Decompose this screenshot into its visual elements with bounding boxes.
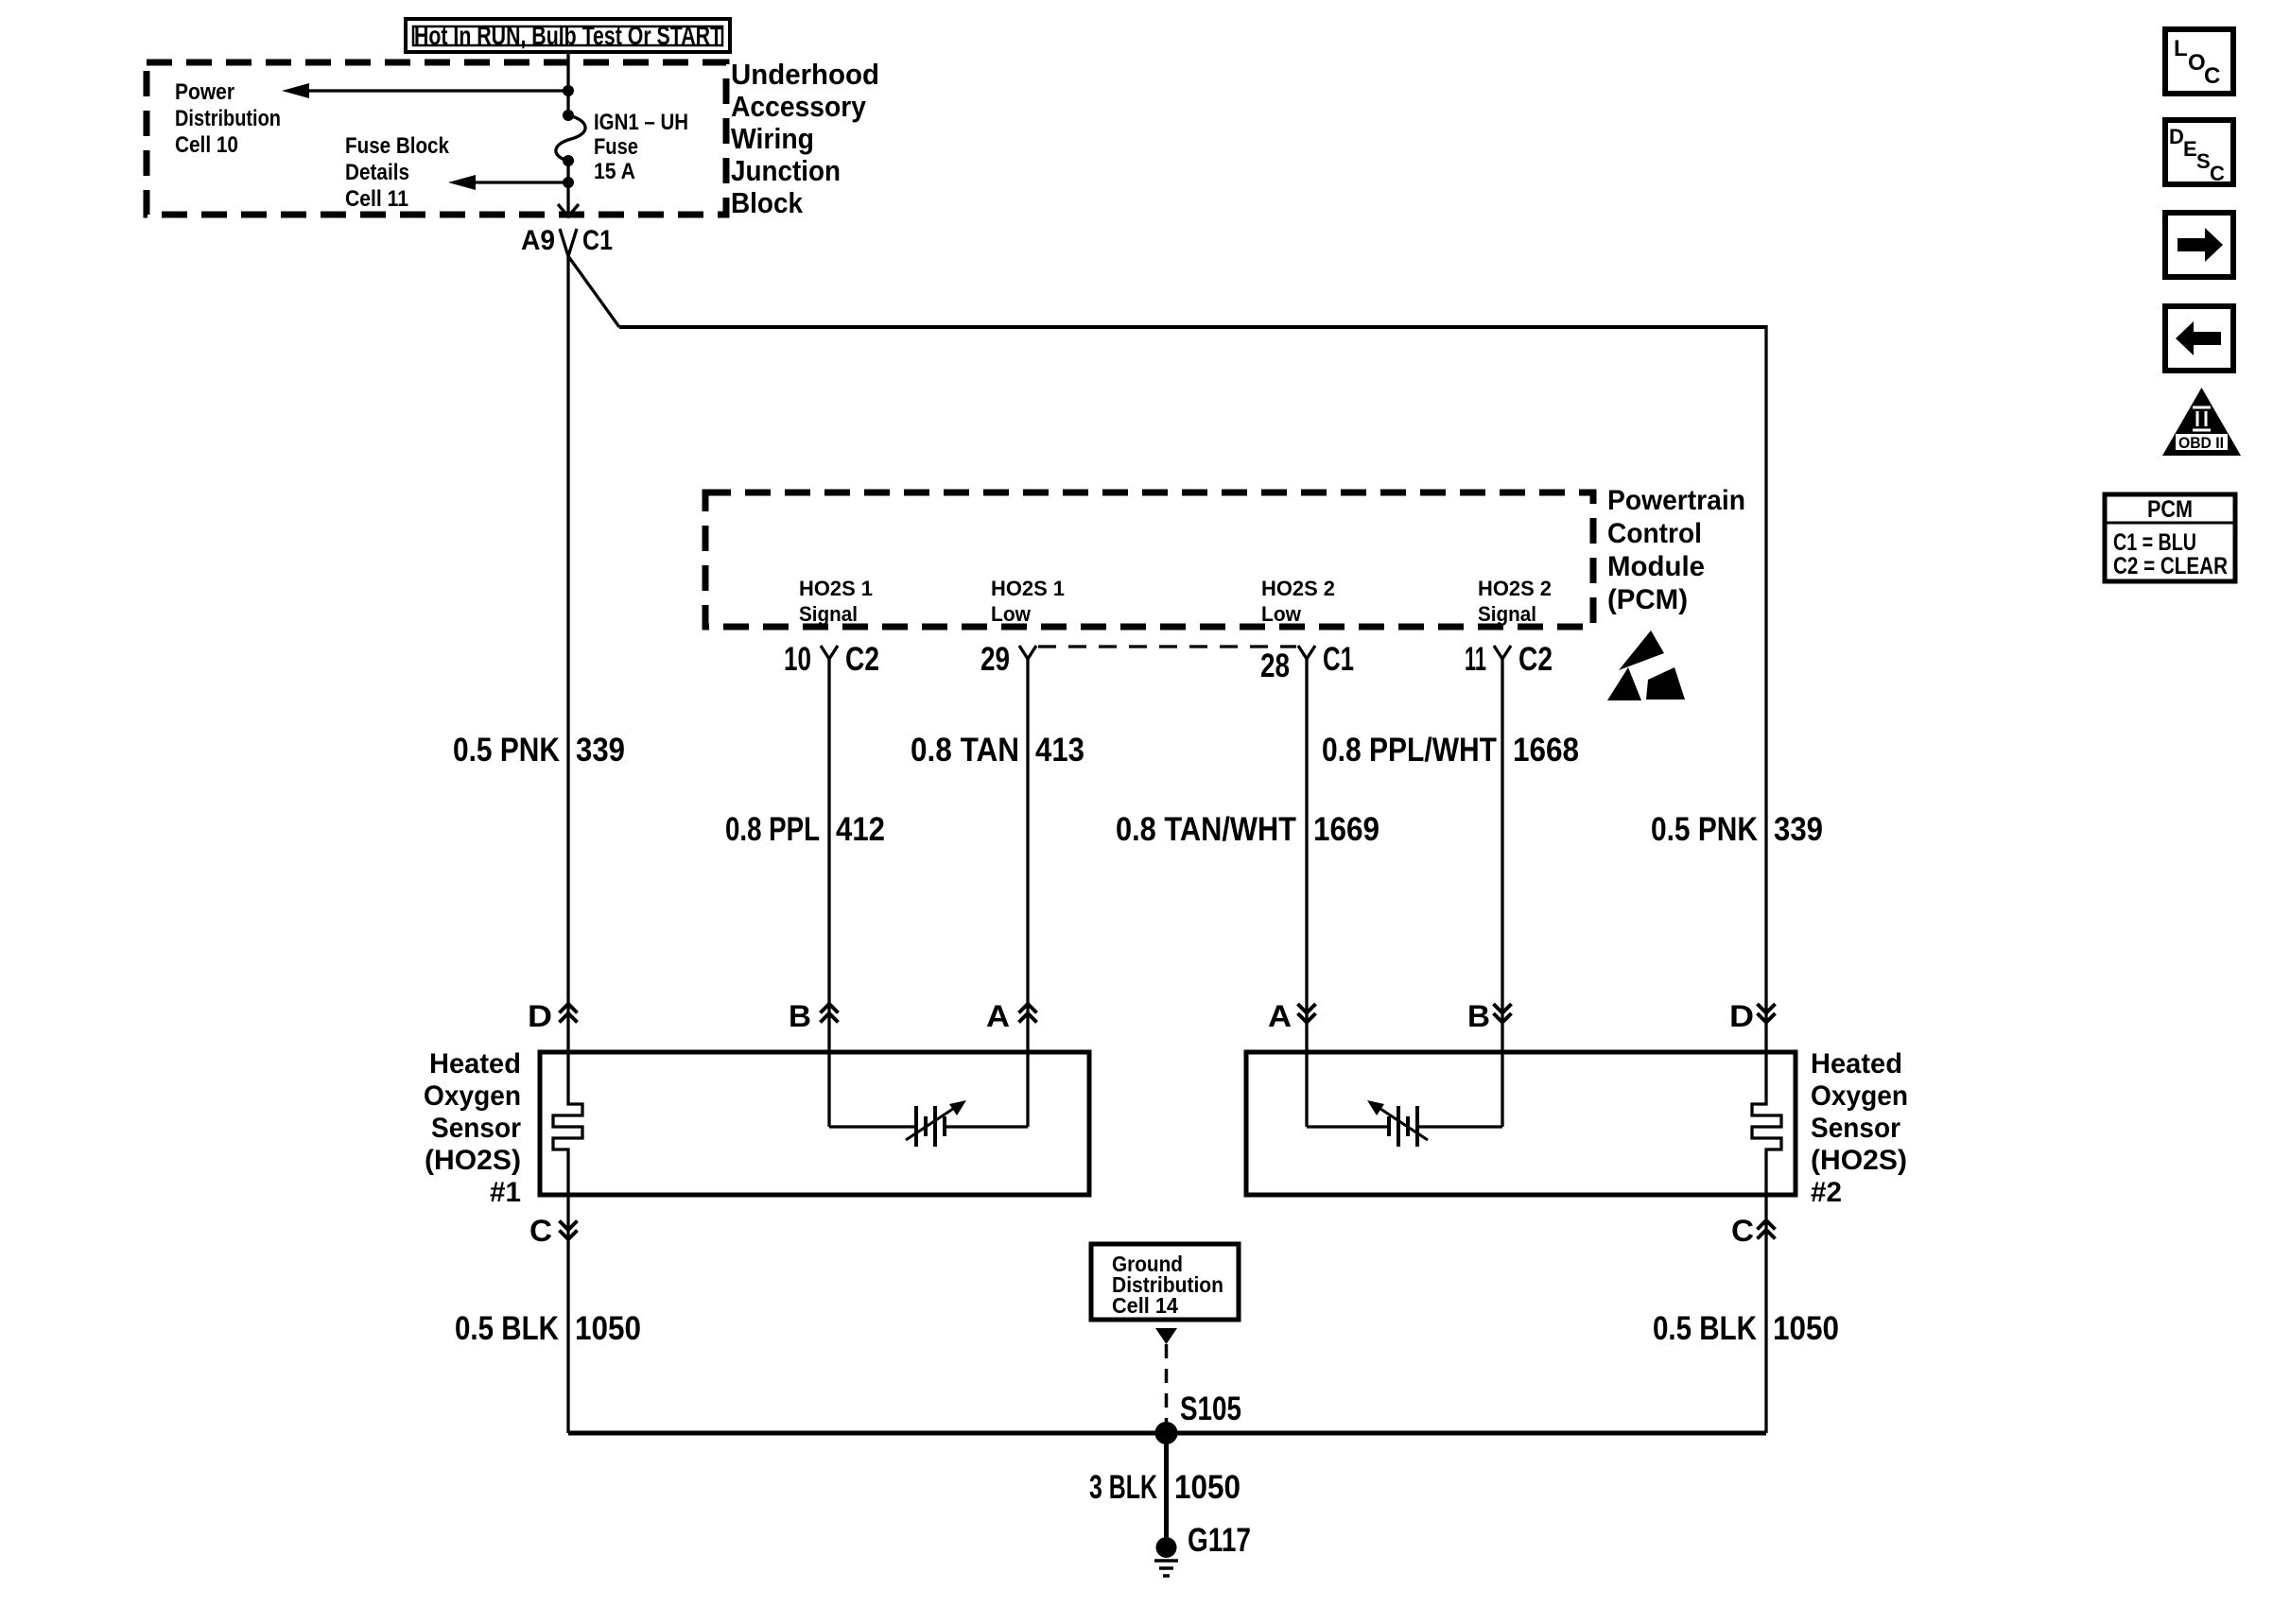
svg-text:Module: Module bbox=[1607, 551, 1705, 582]
svg-text:O: O bbox=[2188, 50, 2206, 76]
svg-text:1050: 1050 bbox=[1773, 1310, 1839, 1347]
wire below fuse bbox=[566, 161, 569, 216]
pin 11 C2 fork bbox=[1465, 641, 1553, 678]
svg-text:Accessory: Accessory bbox=[731, 90, 867, 123]
svg-text:A: A bbox=[1268, 999, 1292, 1033]
svg-text:(HO2S): (HO2S) bbox=[1811, 1145, 1907, 1176]
svg-text:Heated: Heated bbox=[429, 1048, 521, 1080]
wire 3 BLK 1050 to ground bbox=[1164, 1433, 1169, 1547]
svg-text:OBD II: OBD II bbox=[2178, 434, 2224, 452]
svg-text:1668: 1668 bbox=[1513, 732, 1579, 769]
svg-text:B: B bbox=[789, 999, 811, 1033]
dashed wire to S105 bbox=[1165, 1344, 1169, 1433]
pin label HO2S 1 Signal bbox=[799, 577, 873, 626]
powertrain control module (dashed box) bbox=[705, 492, 1593, 627]
dashed connector line between pin 29 and pin 28 bbox=[1038, 645, 1296, 648]
svg-text:Sensor: Sensor bbox=[431, 1113, 521, 1144]
pin 28 C1 fork bbox=[1260, 641, 1354, 684]
heater element HO2S1 bbox=[553, 1052, 582, 1195]
svg-text:Powertrain: Powertrain bbox=[1607, 485, 1745, 516]
icon DESC bbox=[2165, 120, 2233, 185]
svg-text:E: E bbox=[2183, 137, 2197, 161]
svg-text:Signal: Signal bbox=[799, 602, 858, 626]
pin 29 fork bbox=[980, 641, 1036, 678]
label 3 BLK 1050 bbox=[1089, 1469, 1241, 1506]
svg-text:3 BLK: 3 BLK bbox=[1089, 1469, 1157, 1506]
svg-text:0.8 TAN/WHT: 0.8 TAN/WHT bbox=[1116, 811, 1296, 848]
svg-text:0.5 PNK: 0.5 PNK bbox=[1651, 811, 1758, 848]
svg-text:Junction: Junction bbox=[731, 154, 841, 187]
svg-text:Oxygen: Oxygen bbox=[424, 1080, 521, 1112]
svg-text:A9: A9 bbox=[521, 225, 555, 256]
sensing element wires HO2S1 bbox=[829, 1052, 1028, 1127]
connector arrows A B D into HO2S2 (chevrons down) bbox=[1298, 1004, 1776, 1023]
svg-text:A: A bbox=[986, 999, 1010, 1033]
junction dot at fuse block details tap bbox=[563, 177, 574, 188]
svg-text:C1: C1 bbox=[1323, 641, 1354, 678]
svg-text:C: C bbox=[529, 1214, 552, 1248]
svg-text:Power: Power bbox=[175, 79, 234, 105]
junction dot at power distribution tap bbox=[563, 85, 574, 96]
label 0.5 BLK 1050 (right) bbox=[1653, 1310, 1839, 1347]
wire TAN 413 (pin 29 to HO2S1 A) bbox=[1026, 659, 1029, 1052]
svg-text:10: 10 bbox=[784, 641, 811, 678]
connector arrow C into HO2S2 (chevrons up) bbox=[1758, 1220, 1776, 1239]
pcm connector legend box bbox=[2105, 494, 2235, 581]
pin 10 C2 fork bbox=[784, 641, 879, 678]
svg-text:C2: C2 bbox=[845, 641, 879, 678]
wire BLK 1050 from HO2S2 C bbox=[1764, 1195, 1767, 1433]
wire: feed into junction block bbox=[566, 52, 569, 115]
svg-text:S: S bbox=[2196, 149, 2211, 173]
label 0.5 PNK 339 (right) bbox=[1651, 811, 1823, 848]
svg-text:G117: G117 bbox=[1188, 1522, 1251, 1559]
label 0.8 TAN/WHT 1669 bbox=[1116, 811, 1379, 848]
label 0.8 PPL 412 bbox=[725, 811, 885, 848]
bottom wire run BLK 1050 bbox=[568, 1431, 1766, 1436]
pin label HO2S 1 Low bbox=[991, 577, 1065, 626]
svg-text:(PCM): (PCM) bbox=[1607, 584, 1688, 615]
label 0.8 PPL/WHT 1668 bbox=[1322, 732, 1579, 769]
svg-text:C: C bbox=[2210, 162, 2225, 185]
svg-text:Control: Control bbox=[1607, 518, 1702, 549]
svg-text:HO2S 2: HO2S 2 bbox=[1261, 577, 1335, 600]
svg-text:Oxygen: Oxygen bbox=[1811, 1080, 1908, 1112]
ground G117 bbox=[1154, 1537, 1178, 1576]
sensing element (variable cell) HO2S1 bbox=[906, 1100, 966, 1147]
wire TAN/WHT 1669 (pin 28 to HO2S2 A) bbox=[1305, 659, 1308, 1052]
heated oxygen sensor 1 box bbox=[540, 1052, 1089, 1195]
svg-text:1050: 1050 bbox=[1174, 1469, 1241, 1506]
svg-text:Underhood: Underhood bbox=[731, 58, 879, 91]
svg-text:HO2S 2: HO2S 2 bbox=[1478, 577, 1552, 600]
svg-text:IGN1 – UH: IGN1 – UH bbox=[594, 110, 688, 135]
svg-text:S105: S105 bbox=[1180, 1391, 1241, 1427]
svg-text:C2: C2 bbox=[1518, 641, 1553, 678]
svg-text:0.8 PPL: 0.8 PPL bbox=[725, 811, 820, 848]
svg-text:L: L bbox=[2174, 36, 2188, 61]
svg-text:PCM: PCM bbox=[2147, 496, 2193, 523]
svg-text:0.5 PNK: 0.5 PNK bbox=[453, 732, 560, 769]
wire PNK 339 top horizontal run to right side bbox=[619, 325, 1766, 329]
svg-text:C1 = BLU: C1 = BLU bbox=[2113, 529, 2196, 556]
svg-text:Cell 14: Cell 14 bbox=[1112, 1293, 1178, 1318]
fuse IGN1-UH bbox=[556, 110, 585, 166]
svg-text:Hot In RUN, Bulb Test Or START: Hot In RUN, Bulb Test Or START bbox=[414, 21, 722, 50]
svg-text:#2: #2 bbox=[1811, 1177, 1842, 1208]
svg-text:0.5 BLK: 0.5 BLK bbox=[455, 1310, 559, 1347]
svg-text:Low: Low bbox=[1261, 602, 1302, 626]
svg-text:412: 412 bbox=[836, 811, 885, 848]
wire PPL/WHT 1668 (pin 11 to HO2S2 B) bbox=[1501, 659, 1503, 1052]
label Powertrain Control Module (PCM) bbox=[1607, 485, 1745, 615]
svg-text:11: 11 bbox=[1465, 641, 1486, 678]
fuse label IGN1 - UH Fuse 15 A bbox=[594, 110, 688, 184]
wire BLK 1050 from HO2S1 C bbox=[566, 1195, 569, 1433]
connector A9 / C1 (fork) bbox=[521, 225, 613, 256]
label Power Distribution Cell 10 bbox=[175, 79, 281, 158]
svg-text:D: D bbox=[2169, 125, 2184, 148]
label 0.8 TAN 413 bbox=[911, 732, 1084, 769]
svg-text:Block: Block bbox=[731, 186, 804, 219]
svg-text:28: 28 bbox=[1260, 648, 1290, 684]
power feed box "Hot In RUN, Bulb Test Or START" bbox=[406, 19, 730, 52]
wire arrow to Fuse Block Details bbox=[448, 175, 568, 190]
svg-text:Cell 10: Cell 10 bbox=[175, 132, 238, 158]
svg-text:(HO2S): (HO2S) bbox=[425, 1145, 521, 1176]
svg-text:Cell 11: Cell 11 bbox=[345, 186, 408, 212]
svg-text:Heated: Heated bbox=[1811, 1048, 1902, 1080]
svg-text:C: C bbox=[2204, 63, 2220, 89]
icon forward arrow bbox=[2165, 213, 2233, 277]
heated oxygen sensor 2 box bbox=[1246, 1052, 1796, 1195]
label Heated Oxygen Sensor (HO2S) #2 bbox=[1811, 1048, 1908, 1208]
pin label HO2S 2 Low bbox=[1261, 577, 1335, 626]
label Heated Oxygen Sensor (HO2S) #1 bbox=[424, 1048, 521, 1208]
label Ground Distribution Cell 14 bbox=[1112, 1252, 1223, 1318]
svg-text:C2 = CLEAR: C2 = CLEAR bbox=[2113, 553, 2228, 579]
connector arrows D B A into HO2S1 (chevrons up) bbox=[560, 1004, 1037, 1023]
icon OBD II triangle bbox=[2162, 388, 2241, 456]
svg-text:Distribution: Distribution bbox=[175, 106, 281, 131]
icon LOC bbox=[2165, 29, 2233, 94]
svg-text:15 A: 15 A bbox=[594, 159, 635, 184]
svg-text:Details: Details bbox=[345, 160, 409, 185]
svg-text:0.8 PPL/WHT: 0.8 PPL/WHT bbox=[1322, 732, 1497, 769]
wire PNK 339 right run down to HO2S2 pin D bbox=[1764, 325, 1767, 1052]
sensing element wires HO2S2 bbox=[1307, 1052, 1502, 1127]
svg-text:B: B bbox=[1467, 999, 1490, 1033]
svg-text:0.5 BLK: 0.5 BLK bbox=[1653, 1310, 1757, 1347]
arrowhead below ground box bbox=[1155, 1328, 1177, 1344]
svg-text:HO2S 1: HO2S 1 bbox=[799, 577, 873, 600]
icon back arrow bbox=[2165, 306, 2233, 371]
svg-text:HO2S 1: HO2S 1 bbox=[991, 577, 1065, 600]
svg-text:413: 413 bbox=[1035, 732, 1084, 769]
svg-text:#1: #1 bbox=[490, 1177, 521, 1208]
svg-text:1050: 1050 bbox=[575, 1310, 641, 1347]
svg-text:Signal: Signal bbox=[1478, 602, 1536, 626]
svg-text:339: 339 bbox=[1774, 811, 1823, 848]
label 0.5 BLK 1050 (left) bbox=[455, 1310, 641, 1347]
heater element HO2S2 bbox=[1752, 1052, 1781, 1195]
arrow out of junction block (open chevron down) bbox=[558, 204, 579, 216]
svg-text:C: C bbox=[1731, 1214, 1754, 1248]
sensing element (variable cell) HO2S2 bbox=[1367, 1100, 1428, 1147]
svg-text:0.8 TAN: 0.8 TAN bbox=[911, 732, 1019, 769]
ESD warning symbol bbox=[1607, 631, 1685, 700]
svg-text:Low: Low bbox=[991, 602, 1032, 626]
svg-text:339: 339 bbox=[576, 732, 625, 769]
svg-text:29: 29 bbox=[980, 641, 1010, 678]
wire branch diagonal from A9 bbox=[568, 256, 619, 327]
svg-text:Fuse Block: Fuse Block bbox=[345, 133, 450, 159]
svg-text:Wiring: Wiring bbox=[731, 122, 814, 155]
svg-text:Fuse: Fuse bbox=[594, 134, 638, 160]
svg-text:Sensor: Sensor bbox=[1811, 1113, 1900, 1144]
svg-text:D: D bbox=[1729, 999, 1754, 1033]
underhood accessory wiring junction block (dashed box) bbox=[147, 62, 726, 215]
splice S105 bbox=[1155, 1422, 1178, 1444]
label Fuse Block Details Cell 11 bbox=[345, 133, 450, 212]
label 0.5 PNK 339 (left) bbox=[453, 732, 625, 769]
label Underhood Accessory Wiring Junction Block bbox=[731, 58, 879, 219]
ground distribution box bbox=[1091, 1244, 1239, 1320]
svg-text:D: D bbox=[528, 999, 552, 1033]
svg-text:C1: C1 bbox=[582, 225, 613, 256]
connector arrow C out of HO2S1 (chevrons down) bbox=[560, 1221, 578, 1240]
pin label HO2S 2 Signal bbox=[1478, 577, 1552, 626]
wire PNK 339 left run (A9 to HO2S1 pin D) bbox=[566, 254, 569, 1052]
wire PPL 412 (pin 10 to HO2S1 B) bbox=[827, 659, 830, 1052]
wire arrow to Power Distribution bbox=[282, 83, 568, 98]
svg-text:1669: 1669 bbox=[1313, 811, 1379, 848]
